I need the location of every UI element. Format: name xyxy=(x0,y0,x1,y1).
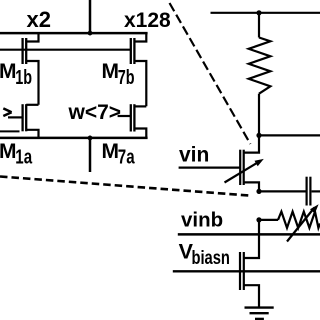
transistor M7b xyxy=(131,33,147,106)
node B xyxy=(256,189,261,194)
wire vinb xyxy=(178,233,320,236)
svg-text:vinb: vinb xyxy=(181,209,223,232)
node junction top xyxy=(88,31,93,36)
transistor Mb (Vbiasn) xyxy=(173,220,320,308)
node C xyxy=(256,217,261,222)
wire top rail xyxy=(211,12,320,14)
transistor M1b xyxy=(23,33,39,105)
node A xyxy=(256,133,261,138)
arrowhead Min xyxy=(255,159,264,166)
resistor R2 (variable) xyxy=(259,208,320,242)
wire stub left xyxy=(0,130,20,132)
wire vdd tap xyxy=(89,0,92,33)
capacitor C xyxy=(307,177,320,206)
svg-text:w<7>: w<7> xyxy=(68,101,122,124)
svg-text:x128: x128 xyxy=(124,9,171,32)
wire tail down xyxy=(89,138,92,172)
transistor M1a xyxy=(3,104,38,138)
wire bottom rail xyxy=(0,137,148,140)
svg-text:x2: x2 xyxy=(27,7,51,32)
transistor Min (vin, tunable) xyxy=(179,135,259,191)
node junction bottom xyxy=(88,136,93,141)
wire to capacitor xyxy=(259,190,306,192)
resistor R load xyxy=(249,13,271,136)
wire top rail VDD xyxy=(0,32,148,35)
wire output right xyxy=(259,134,320,136)
ground xyxy=(245,308,274,319)
transistor M7a xyxy=(118,104,147,138)
svg-text:vin: vin xyxy=(179,144,209,167)
dashed callout line upper xyxy=(170,3,251,144)
wire gate rail xyxy=(0,49,131,51)
node junction rail xyxy=(256,10,261,15)
arrowhead R2 xyxy=(310,204,319,213)
dashed callout line lower xyxy=(0,177,249,196)
